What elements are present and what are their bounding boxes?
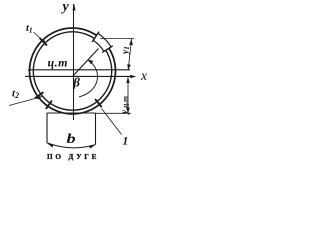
t2 leader arrowhead bbox=[37, 96, 43, 99]
y axis arrowhead bbox=[73, 3, 76, 10]
svg-text:β: β bbox=[72, 75, 80, 90]
svg-text:b: b bbox=[67, 132, 76, 146]
t1 leader arrowhead bbox=[41, 39, 46, 45]
t2 leader bbox=[9, 97, 42, 106]
weld tick bottom-left (235deg) bbox=[46, 101, 52, 110]
svg-text:t1: t1 bbox=[26, 23, 33, 35]
outer ring circle bbox=[30, 28, 116, 114]
weld band end tick upper bbox=[92, 32, 99, 42]
svg-text:t2: t2 bbox=[12, 88, 19, 101]
leader to label 1 bbox=[102, 109, 122, 135]
lower right extension line (tab top level) bbox=[95, 112, 131, 114]
bottom tab top edge bbox=[47, 112, 96, 114]
svg-text:у1: у1 bbox=[121, 46, 131, 55]
weld tick t2 (216deg) bbox=[35, 92, 44, 98]
x axis through c.g. bbox=[25, 75, 133, 77]
y c.t. bottom arrowhead bbox=[126, 108, 130, 114]
y c.t. top arrowhead bbox=[126, 77, 130, 83]
radius line to weld 1 bbox=[73, 49, 99, 77]
bottom tab bottom arc / b dimension line bbox=[47, 143, 96, 148]
x axis arrowhead bbox=[130, 75, 136, 79]
b dimension right arrowhead bbox=[89, 145, 95, 149]
vertical centerline (y axis) bbox=[73, 4, 75, 120]
weld tick t1 (135deg) bbox=[40, 38, 47, 45]
svg-text:у.ц.т: у.ц.т bbox=[120, 96, 130, 115]
bottom tab left edge bbox=[46, 113, 48, 143]
svg-text:x: x bbox=[140, 68, 147, 83]
angle beta arc bbox=[79, 60, 98, 97]
weld tick bottom-right (309deg) bbox=[95, 99, 102, 107]
t1 leader bbox=[34, 32, 46, 44]
b dimension left arrowhead bbox=[47, 143, 53, 147]
svg-text:y: y bbox=[61, 0, 70, 15]
bottom tab right edge bbox=[95, 113, 97, 145]
beta arc arrowhead bbox=[88, 59, 94, 64]
weld 1 band (white sector overlay) bbox=[93, 33, 111, 51]
svg-text:1: 1 bbox=[123, 136, 129, 148]
svg-text:ПО ДУГЕ: ПО ДУГЕ bbox=[47, 153, 99, 161]
svg-text:ц.т: ц.т bbox=[48, 56, 69, 70]
inner ring circle bbox=[33, 32, 111, 110]
upper right extension line (weld 1 level) bbox=[100, 38, 134, 40]
y c.t. dimension line bbox=[127, 77, 129, 114]
y1 top arrowhead bbox=[129, 39, 133, 45]
y1 bottom arrowhead bbox=[127, 64, 131, 70]
weld band end tick lower bbox=[102, 46, 113, 53]
horizontal centerline bbox=[28, 69, 130, 71]
y1 dimension line bbox=[128, 39, 131, 70]
